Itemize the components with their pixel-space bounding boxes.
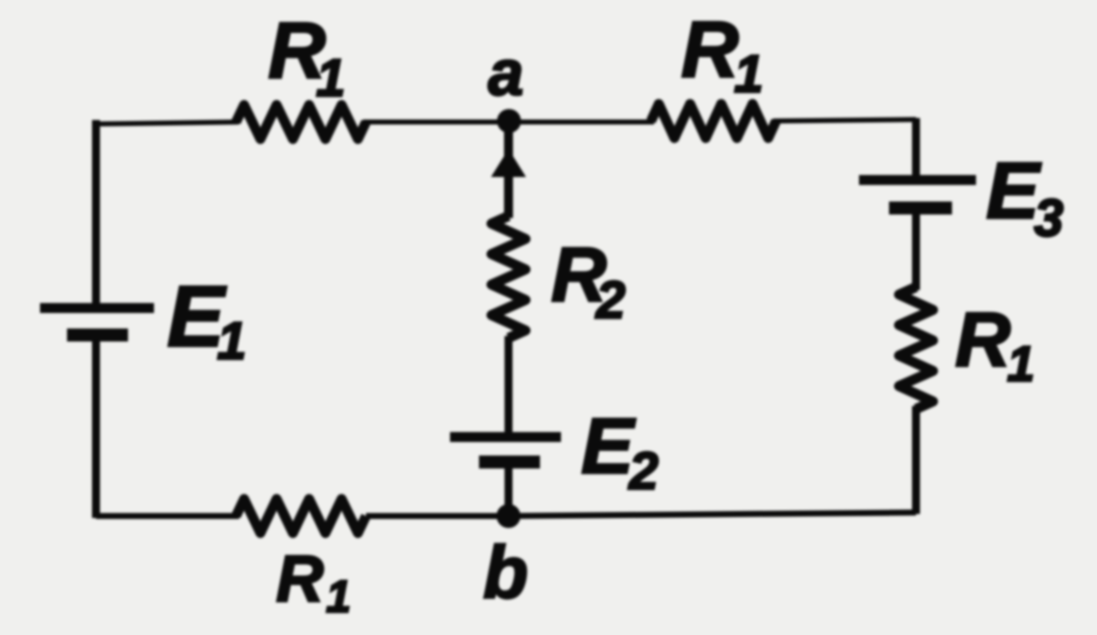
arrowhead (current direction into node a)	[491, 149, 526, 177]
wire bottom-left segment	[96, 513, 239, 519]
node a	[497, 109, 521, 133]
wire top-right segment	[773, 120, 916, 122]
wire bottom-right segment	[366, 513, 916, 517]
battery E1	[40, 308, 154, 335]
wire top-left segment	[95, 122, 239, 124]
wire middle lower	[505, 336, 513, 438]
node b	[497, 504, 521, 528]
svg-text:1: 1	[326, 571, 351, 622]
svg-text:E: E	[581, 401, 636, 490]
label E3	[986, 146, 1063, 248]
svg-text:b: b	[483, 531, 528, 614]
svg-text:R: R	[276, 541, 324, 615]
resistor R1 right	[899, 287, 933, 409]
resistor R2	[492, 216, 526, 338]
label R1 (right resistor)	[955, 297, 1035, 392]
svg-text:2: 2	[628, 442, 658, 501]
battery E3	[859, 180, 976, 208]
wire left vertical lower	[92, 335, 100, 518]
svg-text:a: a	[488, 37, 524, 109]
label R1 (top-left resistor)	[268, 6, 345, 108]
resistor R1 top-left	[236, 105, 366, 139]
svg-text:1: 1	[316, 49, 345, 108]
wire right vertical upper	[912, 118, 920, 181]
label E2	[581, 401, 658, 501]
wire right vertical lower	[912, 406, 920, 514]
label R1 (top-right resistor)	[681, 5, 763, 104]
wire top-middle segment	[363, 120, 654, 125]
wire left vertical upper	[92, 120, 100, 308]
svg-text:2: 2	[595, 271, 625, 330]
svg-text:R: R	[681, 5, 739, 94]
svg-text:1: 1	[1007, 336, 1035, 392]
resistor R1 bottom	[236, 499, 366, 533]
svg-text:1: 1	[734, 45, 763, 104]
label R2	[551, 232, 625, 330]
wire middle bottom	[505, 462, 513, 516]
svg-text:3: 3	[1034, 189, 1063, 248]
resistor R1 top-right	[651, 104, 776, 138]
label E1	[167, 269, 246, 371]
wire right vertical middle	[912, 208, 920, 290]
svg-text:1: 1	[217, 312, 246, 371]
wire middle upper with arrow shaft	[504, 121, 513, 218]
battery E2	[450, 437, 561, 462]
svg-text:R: R	[955, 297, 1011, 383]
label R1 (bottom resistor)	[276, 541, 351, 622]
